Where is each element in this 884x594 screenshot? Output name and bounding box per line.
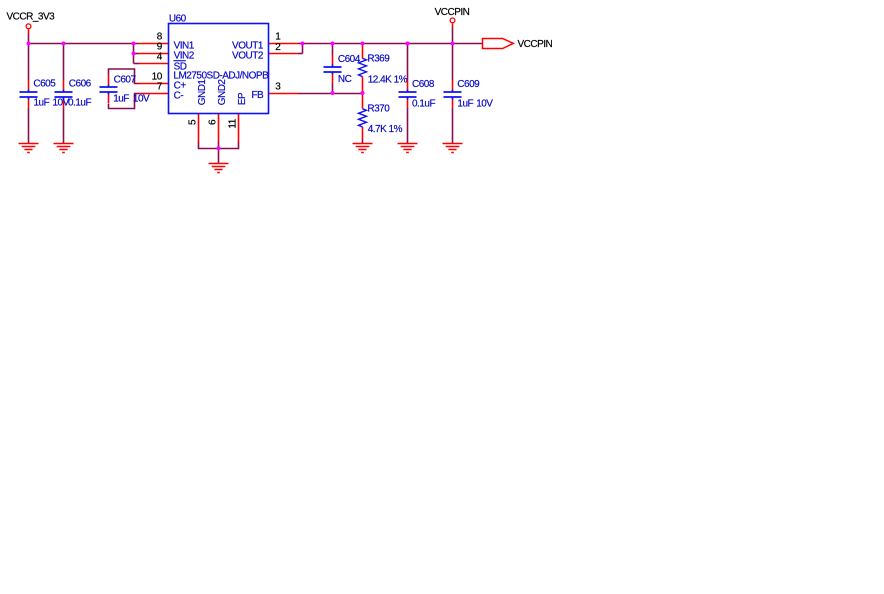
svg-text:1uF: 1uF — [113, 94, 129, 105]
svg-text:C607: C607 — [114, 74, 137, 85]
svg-text:GND2: GND2 — [217, 79, 228, 106]
svg-text:C604: C604 — [338, 54, 361, 65]
svg-text:VCCPIN: VCCPIN — [435, 7, 470, 18]
svg-text:C606: C606 — [69, 79, 92, 90]
svg-text:C608: C608 — [412, 79, 435, 90]
svg-text:GND1: GND1 — [197, 79, 208, 106]
svg-text:4.7K 1%: 4.7K 1% — [368, 124, 403, 135]
svg-text:NC: NC — [338, 74, 352, 85]
svg-text:C605: C605 — [33, 79, 56, 90]
svg-text:FB: FB — [251, 90, 264, 101]
svg-text:C609: C609 — [457, 79, 480, 90]
svg-text:VIN2: VIN2 — [174, 50, 195, 61]
svg-text:0.1uF: 0.1uF — [412, 98, 435, 109]
svg-text:0.1uF: 0.1uF — [68, 98, 91, 109]
svg-text:1uF: 1uF — [34, 98, 50, 109]
svg-text:11: 11 — [228, 118, 239, 128]
svg-text:U60: U60 — [169, 14, 187, 25]
svg-text:R369: R369 — [367, 54, 390, 65]
svg-text:C-: C- — [174, 90, 184, 101]
svg-text:VCCPIN: VCCPIN — [518, 39, 553, 50]
svg-text:VCCR_3V3: VCCR_3V3 — [7, 11, 56, 22]
svg-text:10V: 10V — [133, 94, 150, 105]
svg-text:10V: 10V — [476, 98, 493, 109]
svg-text:VOUT2: VOUT2 — [232, 50, 264, 61]
svg-text:R370: R370 — [367, 104, 390, 115]
svg-text:12.4K 1%: 12.4K 1% — [368, 74, 408, 85]
svg-text:1uF: 1uF — [457, 98, 473, 109]
svg-text:EP: EP — [237, 92, 248, 105]
